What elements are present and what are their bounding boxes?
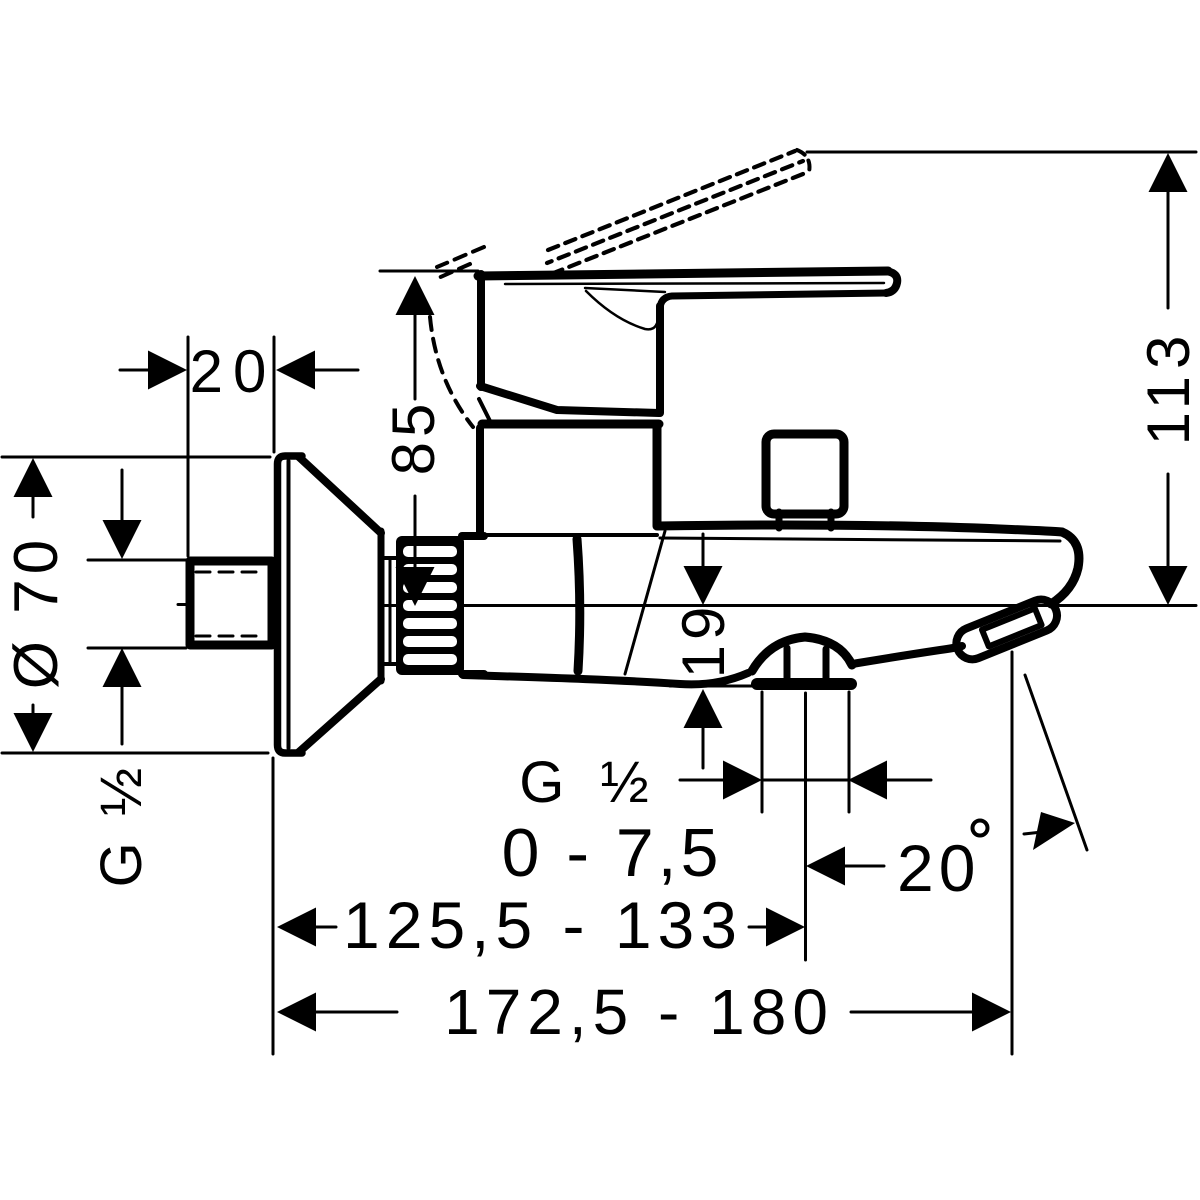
svg-text:172,5 - 180: 172,5 - 180 xyxy=(444,976,834,1048)
arrow stub bottom xyxy=(103,648,142,687)
arrow 113 top xyxy=(1149,153,1188,192)
outlet center ext line xyxy=(804,693,807,960)
escutcheon cone top edge xyxy=(299,457,381,533)
arrow dia70 bottom xyxy=(14,713,53,752)
arrow 0-7.5 right xyxy=(848,761,887,800)
cartridge ring xyxy=(482,420,659,429)
wire raised-lever top extension line xyxy=(807,151,1196,154)
arrow angle left xyxy=(806,847,845,886)
diverter knob neck xyxy=(776,512,783,528)
spout inner thin curve xyxy=(625,531,665,674)
inlet stub thread dashes xyxy=(196,571,264,574)
degree circle xyxy=(973,821,988,836)
dashed rotation arc xyxy=(430,317,473,427)
angle 20deg diagonal xyxy=(1025,675,1087,850)
dim stub tick bottom xyxy=(88,647,186,650)
angle 20deg left leader xyxy=(844,865,884,868)
angle 20deg right leader tail xyxy=(1024,832,1042,834)
escutcheon face inner line xyxy=(287,461,291,748)
union nut (knurled) xyxy=(396,536,464,675)
spout bottom edge left of outlet xyxy=(463,673,748,684)
arrow 20 left xyxy=(148,351,187,390)
svg-text:G ½: G ½ xyxy=(89,763,154,888)
arrow 113 bottom xyxy=(1149,566,1188,605)
wall face ext line xyxy=(272,758,275,1054)
wire lever-top extension line xyxy=(380,270,478,273)
lever handle bottom edge xyxy=(480,386,659,413)
nut-body bottom shoulder xyxy=(462,670,484,678)
dim 20 ext line left xyxy=(187,337,190,556)
dim dia70 line xyxy=(32,496,35,517)
arrow 85 top xyxy=(396,276,435,315)
svg-text:85: 85 xyxy=(380,399,447,476)
dim 85 line xyxy=(414,314,417,399)
spout bottom edge right of outlet xyxy=(852,646,962,664)
neck inner line xyxy=(389,559,392,663)
arrow dia70 top xyxy=(14,458,53,497)
diverter knob xyxy=(766,434,844,514)
dim dia70 top line xyxy=(2,456,270,459)
dashed raised lever line 2 xyxy=(547,161,803,263)
dim 19 tick xyxy=(670,685,762,688)
dashed lever rear edge 1 xyxy=(437,247,484,267)
arrow 125.5 left xyxy=(277,908,316,947)
body-spout transition curve xyxy=(577,539,580,671)
lever handle left edge xyxy=(477,274,485,387)
arrow angle right on diagonal xyxy=(1033,812,1075,850)
svg-text:20: 20 xyxy=(897,831,980,905)
shower outlet inner bars xyxy=(784,648,791,679)
svg-text:19: 19 xyxy=(670,602,737,679)
dim 20 ext line right xyxy=(273,337,276,452)
arrow stub top xyxy=(103,520,142,559)
dim 0-7.5 line xyxy=(680,779,724,782)
arrow 19 bottom xyxy=(684,689,723,728)
arrow 20 right xyxy=(276,351,315,390)
dim 20 line left tail xyxy=(120,369,150,372)
dashed raised lever line 3 xyxy=(546,172,808,276)
dim 172.5-180 line xyxy=(316,1011,397,1014)
node centerline xyxy=(383,604,1196,607)
arrow 19 top xyxy=(684,566,723,605)
escutcheon cone right edge xyxy=(378,531,385,681)
arrow 85 bottom xyxy=(396,567,435,606)
dim 19 line xyxy=(702,534,705,567)
arrow 125.5 right xyxy=(766,908,805,947)
lever blade top edge xyxy=(478,271,888,276)
dim 172.5-180 right ext line xyxy=(1011,652,1014,1054)
shower outlet dome xyxy=(752,637,852,671)
dim 113 line xyxy=(1167,191,1170,308)
dim 0-7.5 ext lines xyxy=(761,692,764,812)
inlet stub xyxy=(190,561,272,645)
lever scoop detail xyxy=(585,288,665,292)
arrow 172.5 left xyxy=(277,993,316,1032)
lever handle right edge xyxy=(656,306,664,413)
svg-text:113: 113 xyxy=(1135,329,1200,446)
dim 20 line right tail xyxy=(314,369,358,372)
svg-text:Ø 70: Ø 70 xyxy=(2,535,71,689)
nut-body top shoulder xyxy=(462,532,484,540)
svg-text:G ½: G ½ xyxy=(519,750,659,815)
lever blade bottom edge xyxy=(660,293,887,308)
shower outlet bottom band xyxy=(757,678,851,690)
svg-text:0 - 7,5: 0 - 7,5 xyxy=(502,815,723,891)
lever blade inner line xyxy=(505,283,884,284)
dim 125.5-133 line xyxy=(316,926,336,929)
dashed raised lever end cap xyxy=(797,150,810,172)
body left edge xyxy=(476,428,484,535)
arrow 0-7.5 left xyxy=(723,761,762,800)
aerator capsule xyxy=(952,595,1062,664)
spout top inner line xyxy=(660,538,1060,541)
dim stub tick top xyxy=(88,559,186,562)
body right edge xyxy=(653,428,662,525)
svg-text:20: 20 xyxy=(190,338,277,405)
dashed lever rear edge 2 xyxy=(436,264,470,279)
neck shoulders xyxy=(381,556,397,560)
lever blade right cap xyxy=(886,271,897,293)
body/spout junction line xyxy=(479,533,657,537)
spout top edge xyxy=(657,525,1062,532)
spout tip end curve xyxy=(1051,532,1079,604)
dim stub line xyxy=(121,470,124,521)
dim dia70 bottom line xyxy=(2,752,268,755)
dashed raised lever line 1 xyxy=(548,151,795,250)
escutcheon face plate xyxy=(278,456,303,753)
svg-text:125,5 - 133: 125,5 - 133 xyxy=(343,888,743,962)
escutcheon cone bottom edge xyxy=(299,679,381,752)
arrow 172.5 right xyxy=(972,993,1011,1032)
